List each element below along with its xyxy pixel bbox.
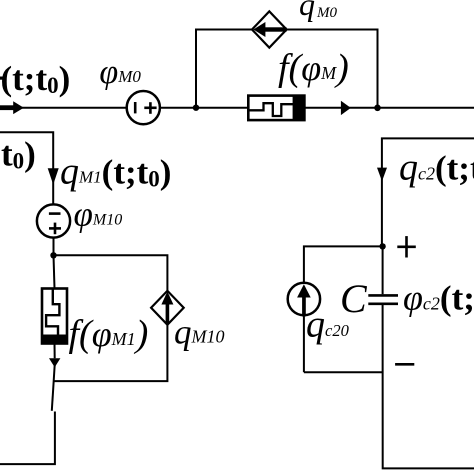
wire memristor bottom to arrow <box>54 344 56 359</box>
wire bottom left vertical <box>0 412 55 465</box>
wire main right segment <box>305 107 474 109</box>
minus polarity bar inside U1 <box>134 102 137 113</box>
wire qc20 loop bottom <box>304 371 383 373</box>
arrow inside qM0 diamond <box>253 22 286 37</box>
wire slanted below arrow <box>52 365 55 411</box>
wire qc2 branch top <box>382 138 474 246</box>
svg-text:f(φM): f(φM) <box>278 47 349 89</box>
plus polarity mark inside U1 <box>144 102 156 114</box>
arrow qc2 down <box>377 168 387 182</box>
wire qM10 loop top <box>54 255 168 290</box>
wire qc20 loop top <box>304 246 383 283</box>
input arrow qM(t;t0) <box>0 101 24 114</box>
current source qc20 circle <box>288 283 320 315</box>
dependent source qM10 diamond <box>151 291 184 325</box>
node J4 <box>379 243 385 249</box>
voltage source phiM0 U1 <box>127 91 160 124</box>
arrow after memristor <box>341 101 351 115</box>
arrow below memristor M2 <box>49 358 60 367</box>
node J2 <box>374 105 381 112</box>
svg-text:C: C <box>340 276 368 321</box>
arrow inside qc20 <box>297 284 311 316</box>
wire J3 to memristor M2 <box>54 255 55 288</box>
minus inside U2 <box>49 212 61 215</box>
wire below U2 <box>53 238 55 256</box>
wire qM10 loop bottom <box>54 325 167 381</box>
partial glyph fragment at left edge <box>0 77 3 80</box>
memristor f(phiM1) vertical <box>42 289 67 344</box>
dependent source qM0 diamond <box>252 11 287 47</box>
svg-text:f(φM1): f(φM1) <box>69 313 149 355</box>
wire below qc20 <box>303 315 305 372</box>
wire main middle segment <box>160 107 249 109</box>
wire qM0 loop left <box>196 30 252 108</box>
node J3 <box>50 252 56 258</box>
node J1 <box>193 105 199 111</box>
wire main horizontal left segment <box>0 107 127 109</box>
capacitor C plates <box>368 295 398 303</box>
memristor f(phiM) <box>248 96 304 121</box>
arrow inside qM10 diamond <box>161 292 173 325</box>
plus inside U2 <box>49 223 61 235</box>
voltage source phiM10 U2 <box>37 204 70 237</box>
svg-text:(t;t0): (t;t0) <box>1 59 71 98</box>
minus label bottom right <box>395 363 414 366</box>
plus label top right <box>397 236 416 257</box>
wire J4 to cap top <box>382 246 384 294</box>
wire input B horizontal <box>0 132 53 204</box>
wire qM0 loop right <box>287 30 378 108</box>
arrow qM1 down <box>48 168 59 184</box>
svg-text:qc2(t;t0): qc2(t;t0) <box>399 147 474 189</box>
wire cap bottom down to corner <box>383 305 474 468</box>
